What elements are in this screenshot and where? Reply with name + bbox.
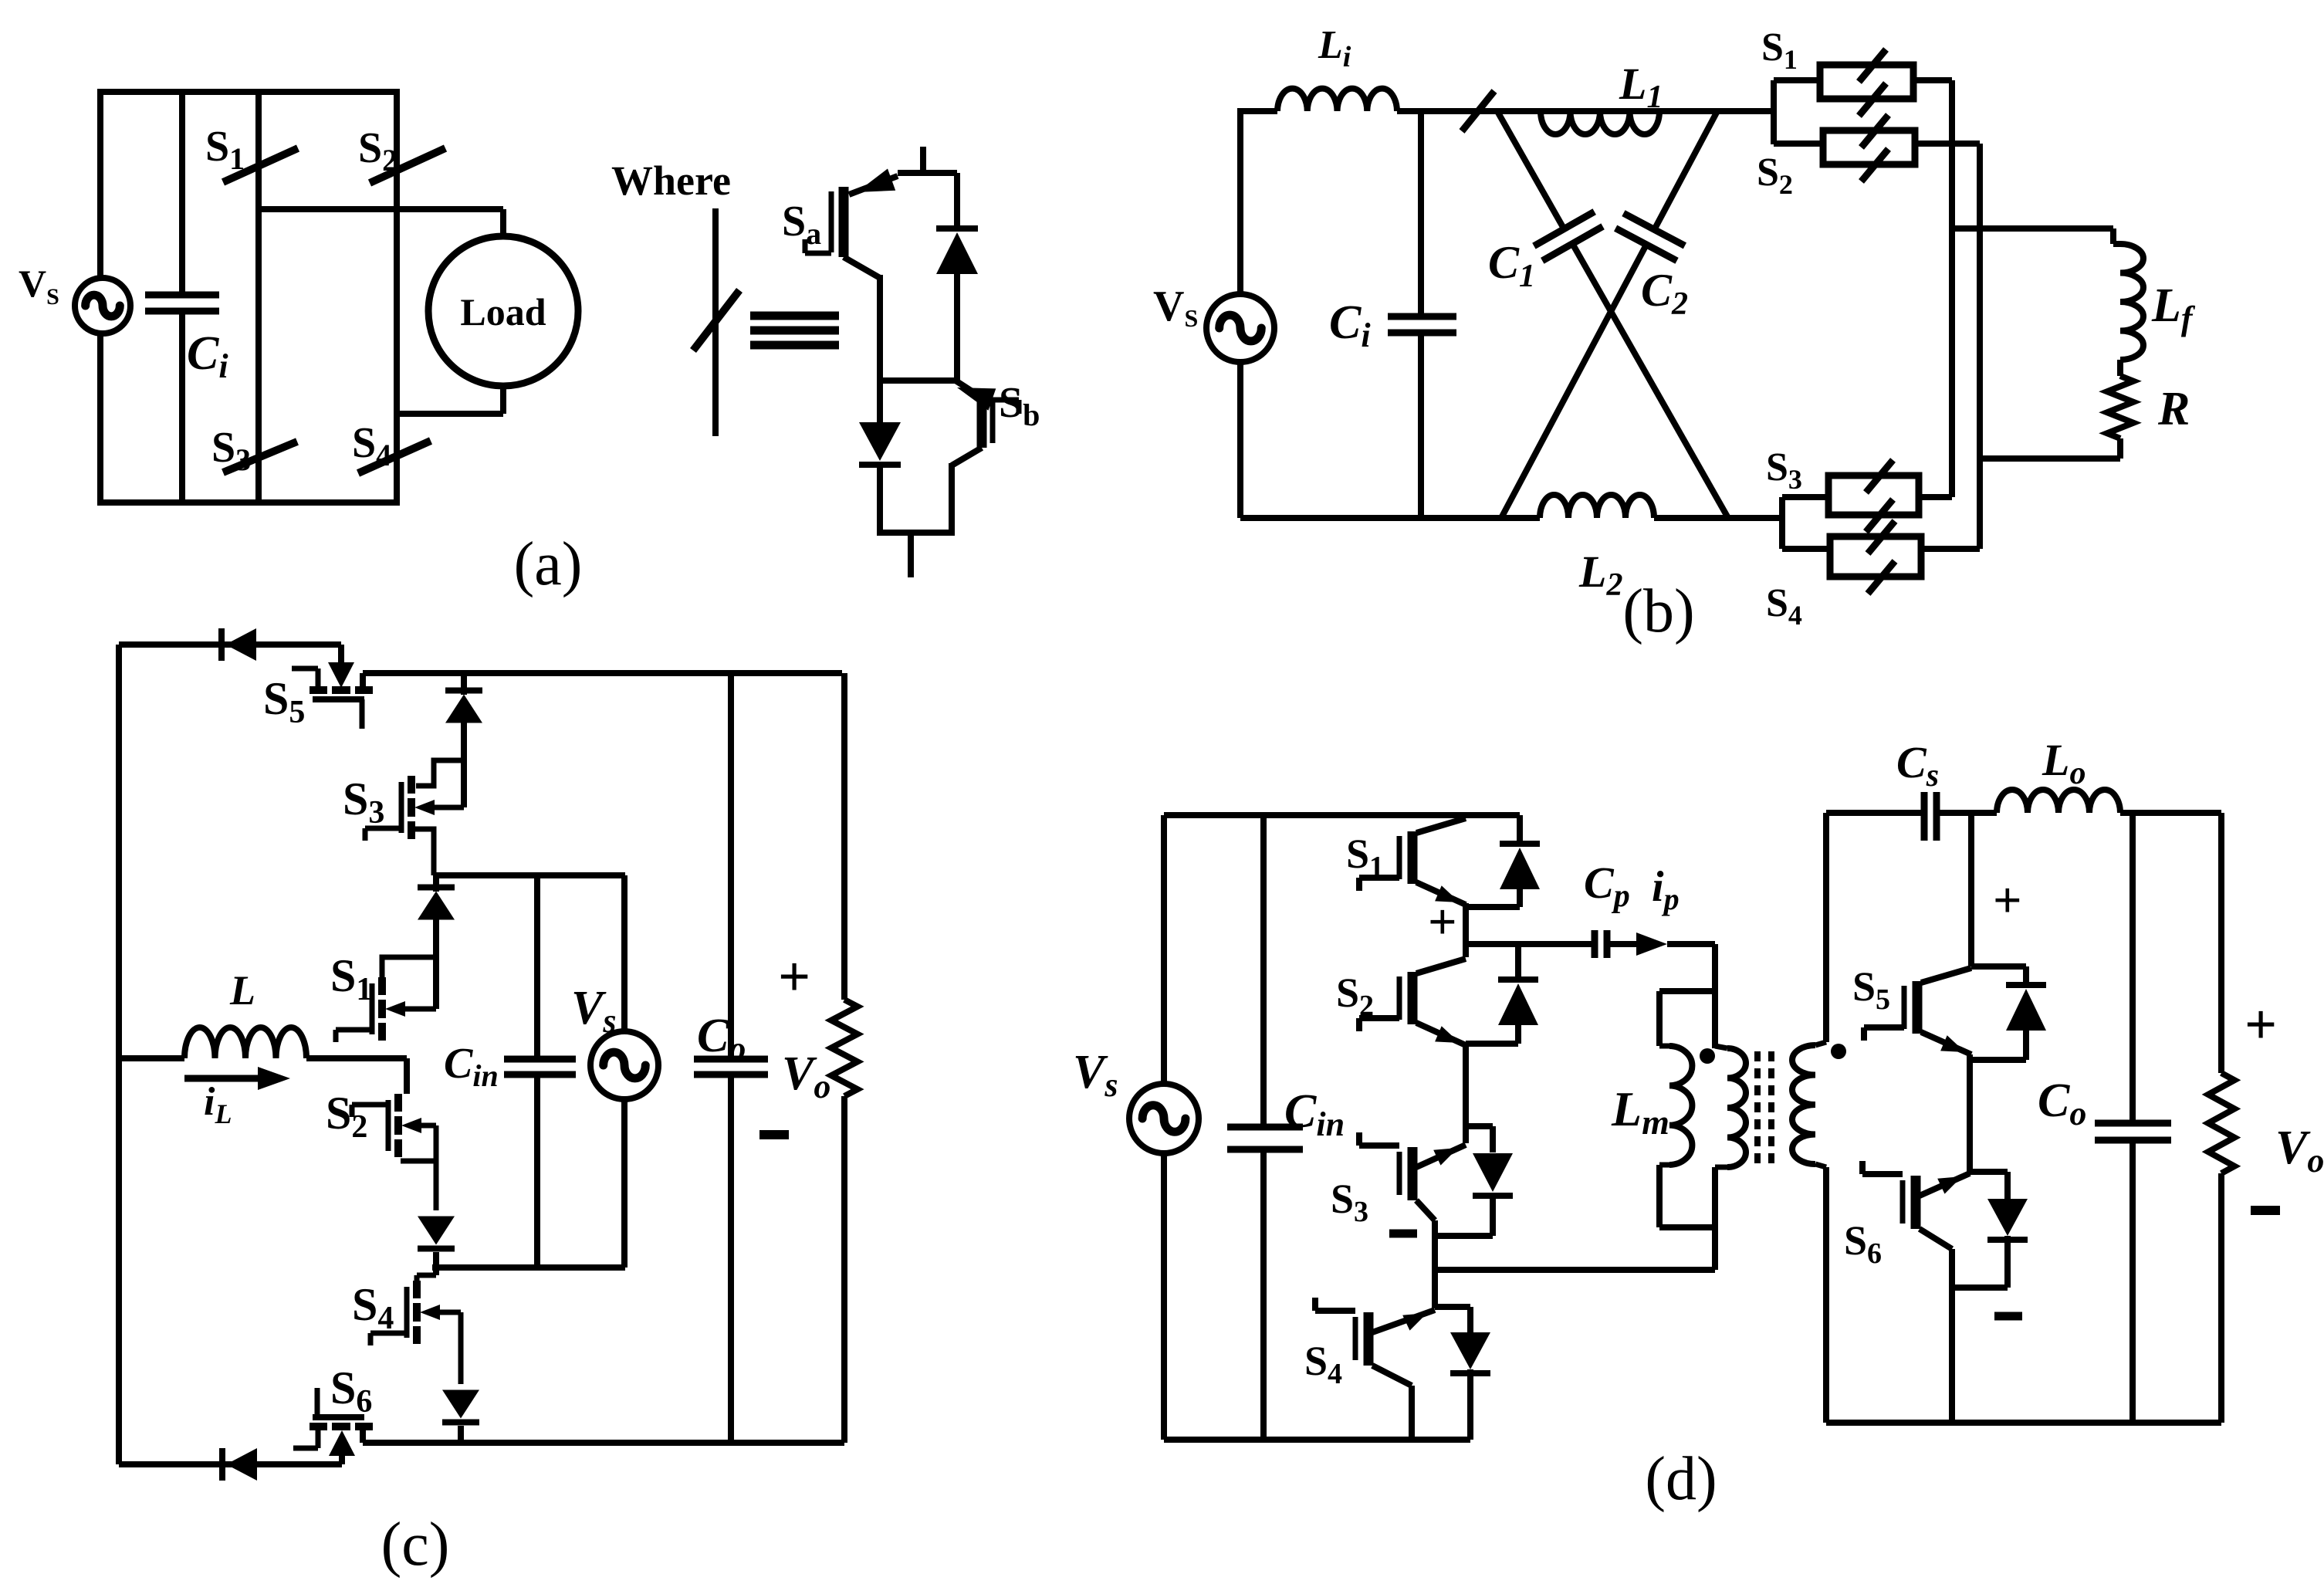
svg-text:+: +: [1993, 872, 2022, 929]
svg-text:Where: Where: [611, 157, 731, 204]
svg-text:+: +: [778, 946, 810, 1009]
svg-text:(a): (a): [514, 530, 583, 598]
svg-text:R: R: [2157, 383, 2190, 435]
svg-text:(b): (b): [1622, 577, 1694, 645]
svg-text:Load: Load: [460, 290, 546, 333]
svg-text:+: +: [1428, 894, 1457, 950]
svg-text:(c): (c): [381, 1511, 450, 1579]
svg-text:L: L: [229, 967, 255, 1014]
svg-text:+: +: [2245, 993, 2277, 1057]
svg-text:(d): (d): [1645, 1445, 1717, 1513]
